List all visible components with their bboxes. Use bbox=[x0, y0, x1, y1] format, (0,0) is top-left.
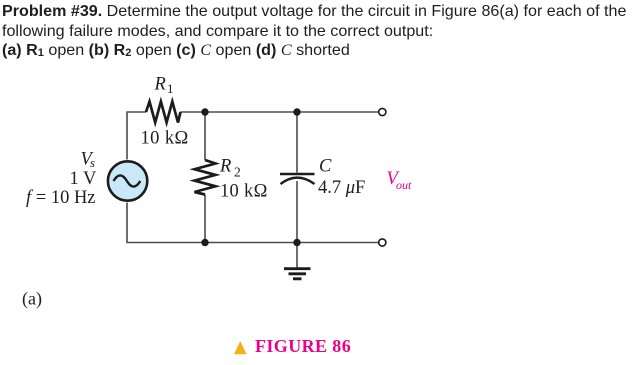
svg-text:10 kΩ: 10 kΩ bbox=[141, 129, 189, 149]
svg-text:s: s bbox=[90, 156, 95, 170]
svg-text:2: 2 bbox=[234, 165, 241, 180]
svg-text:R: R bbox=[154, 75, 166, 95]
svg-text:1 V: 1 V bbox=[70, 169, 98, 189]
svg-text:1: 1 bbox=[167, 81, 174, 96]
svg-text:10 kΩ: 10 kΩ bbox=[220, 182, 268, 202]
svg-text:(a): (a) bbox=[22, 289, 42, 310]
svg-text:R: R bbox=[219, 157, 231, 177]
svg-text:C: C bbox=[319, 157, 332, 177]
svg-text:4.7 μF: 4.7 μF bbox=[318, 178, 365, 198]
svg-text:f = 10 Hz: f = 10 Hz bbox=[26, 188, 96, 208]
svg-text:out: out bbox=[396, 178, 412, 192]
